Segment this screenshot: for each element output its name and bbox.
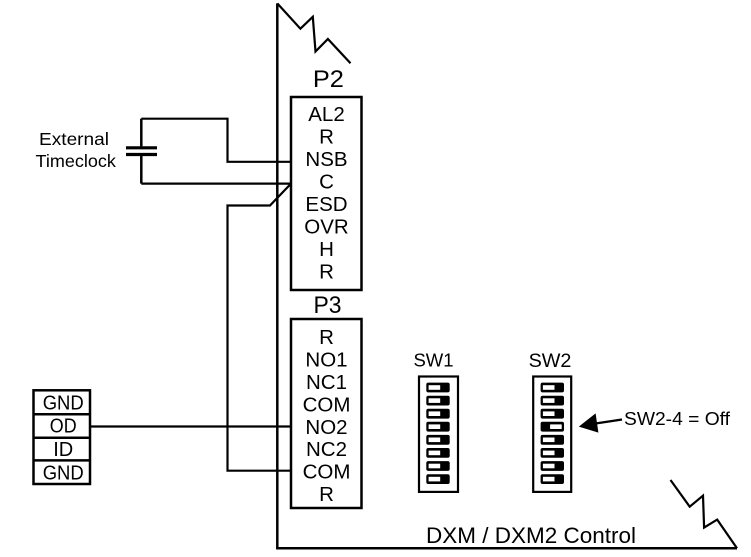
- svg-text:ID: ID: [53, 439, 73, 461]
- svg-text:COM: COM: [303, 393, 351, 416]
- svg-text:H: H: [319, 238, 334, 261]
- svg-text:AL2: AL2: [308, 103, 344, 126]
- svg-text:OD: OD: [50, 416, 77, 438]
- svg-text:OVR: OVR: [304, 216, 348, 239]
- svg-text:Timeclock: Timeclock: [35, 151, 116, 171]
- svg-text:P2: P2: [313, 66, 344, 93]
- svg-text:R: R: [319, 483, 334, 506]
- svg-text:DXM / DXM2 Control: DXM / DXM2 Control: [426, 523, 636, 548]
- svg-text:GND: GND: [43, 463, 84, 485]
- svg-text:NO2: NO2: [305, 416, 347, 439]
- svg-text:R: R: [319, 326, 334, 349]
- svg-text:NC2: NC2: [306, 438, 347, 461]
- svg-text:C: C: [319, 171, 334, 194]
- svg-text:NSB: NSB: [305, 148, 347, 171]
- svg-text:SW2-4 = Off: SW2-4 = Off: [624, 408, 731, 429]
- svg-text:R: R: [319, 261, 334, 284]
- svg-text:ESD: ESD: [305, 193, 347, 216]
- svg-text:R: R: [319, 126, 334, 149]
- svg-text:NC1: NC1: [306, 371, 347, 394]
- svg-text:SW2: SW2: [529, 350, 572, 372]
- svg-text:COM: COM: [303, 461, 351, 484]
- svg-text:GND: GND: [43, 392, 84, 414]
- svg-text:NO1: NO1: [305, 349, 347, 372]
- svg-text:P3: P3: [313, 292, 341, 319]
- svg-text:External: External: [39, 129, 109, 149]
- svg-text:SW1: SW1: [413, 349, 453, 370]
